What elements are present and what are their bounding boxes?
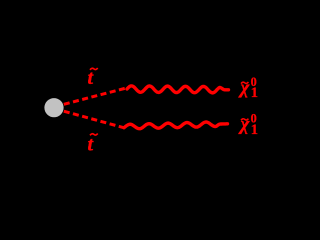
neutralino wavy line lower xyxy=(124,122,228,129)
stop squark propagator line t~ (dashed) upper xyxy=(64,88,127,105)
label neutralino lower: tilde accent xyxy=(241,119,248,121)
label t~ lower: tilde accent xyxy=(90,134,98,136)
svg-text:χ: χ xyxy=(238,78,251,99)
label neutralino upper: tilde accent xyxy=(241,82,248,84)
neutralino wavy line upper xyxy=(127,86,229,93)
svg-text:χ: χ xyxy=(238,114,251,135)
svg-text:1: 1 xyxy=(251,85,258,101)
label t~ upper: tilde accent xyxy=(90,68,98,70)
svg-text:t: t xyxy=(88,67,95,89)
stop squark propagator line t~ (dashed) lower xyxy=(64,111,126,128)
interaction blob vertex xyxy=(44,98,63,117)
svg-text:t: t xyxy=(88,133,95,155)
svg-text:1: 1 xyxy=(251,122,258,138)
